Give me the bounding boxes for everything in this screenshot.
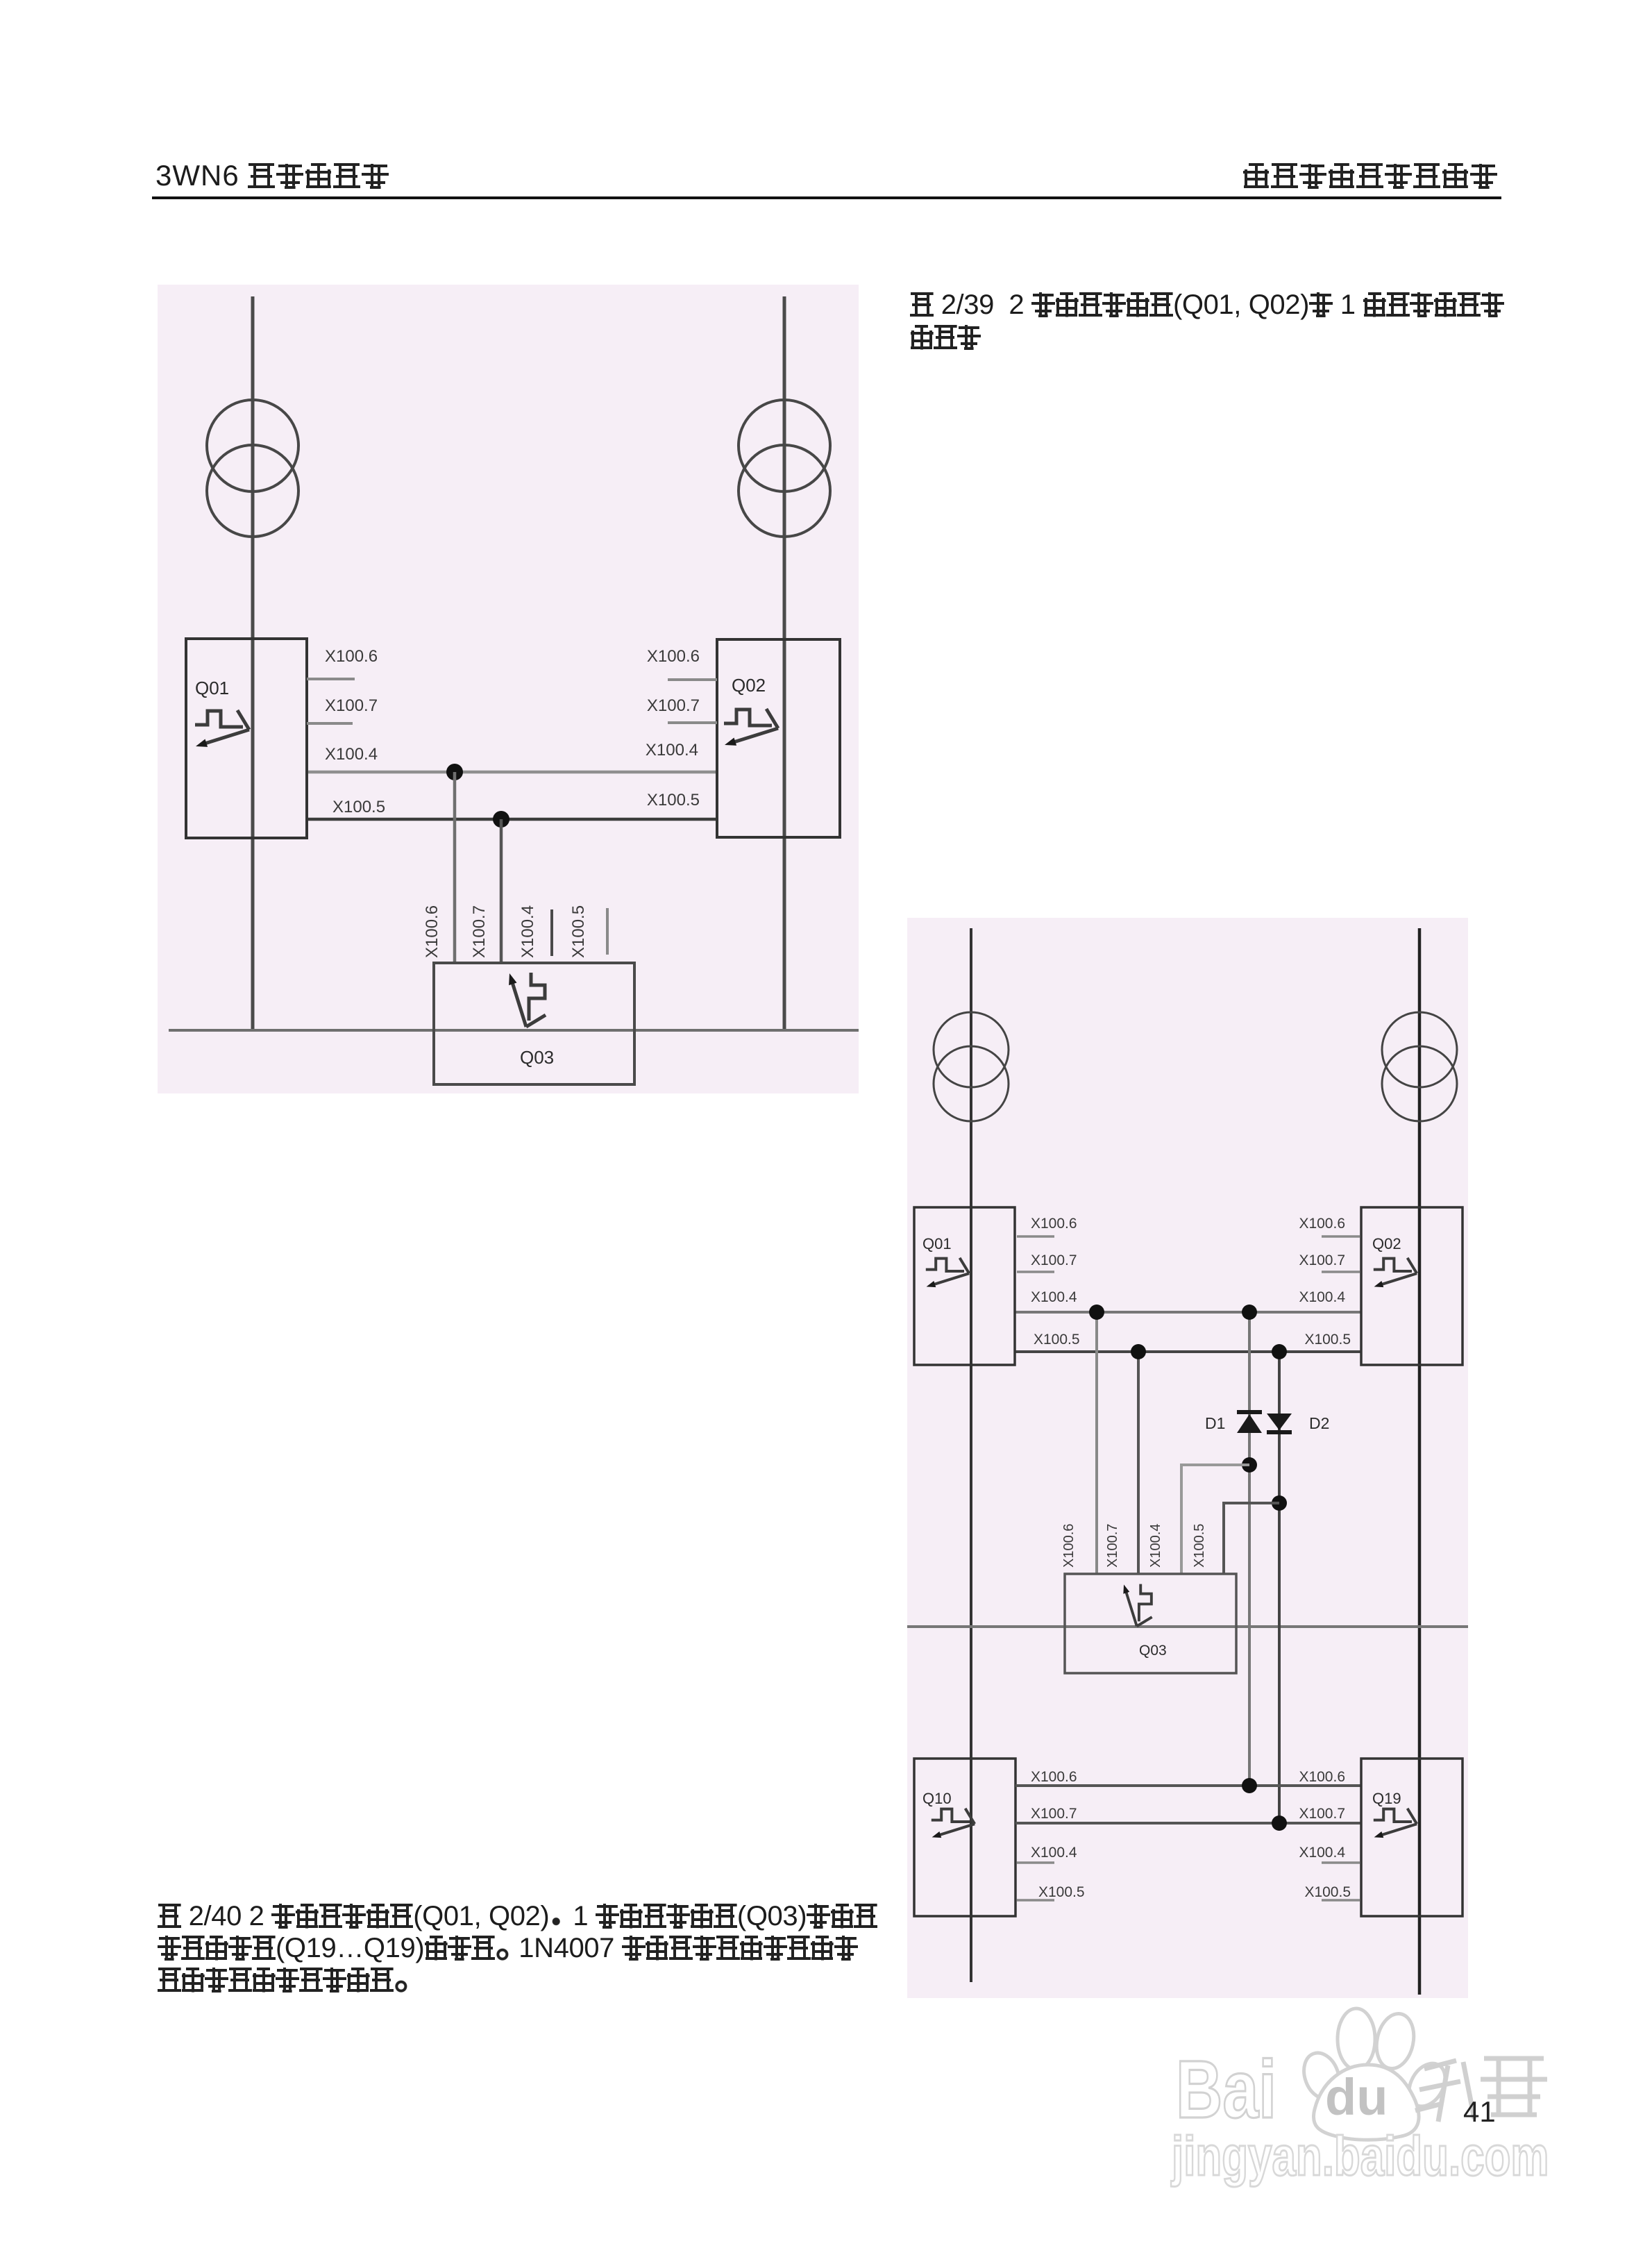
svg-text:X100.5: X100.5 xyxy=(569,905,588,958)
svg-text:X100.6: X100.6 xyxy=(1299,1769,1345,1785)
svg-text:D2: D2 xyxy=(1309,1414,1329,1432)
Q19 pin stub X100.5 xyxy=(1322,1899,1360,1902)
diode D1 branch wire xyxy=(1248,1312,1251,1786)
svg-text:X100.4: X100.4 xyxy=(1148,1524,1163,1568)
junction node X100.7/D2 xyxy=(1272,1815,1287,1831)
junction node X100.6/D1 xyxy=(1242,1778,1257,1793)
figure background xyxy=(158,285,859,1093)
watermark paw icon xyxy=(1298,2008,1453,2140)
svg-text:Bai: Bai xyxy=(1176,2043,1276,2135)
transformer T3 xyxy=(934,1012,1009,1121)
svg-text:X100.4: X100.4 xyxy=(1299,1289,1345,1305)
diode D1 xyxy=(1237,1412,1262,1433)
Q10 pin stub X100.4 xyxy=(1017,1861,1054,1864)
svg-text:Q02: Q02 xyxy=(1372,1235,1401,1252)
Q02 pin stub X100.7 xyxy=(1322,1270,1360,1273)
svg-text:X100.5: X100.5 xyxy=(647,791,700,810)
svg-text:X100.5: X100.5 xyxy=(1038,1884,1085,1900)
header rule xyxy=(152,196,1501,199)
breaker Q02 symbol xyxy=(724,709,778,746)
wire to Q03 pin X100.7 xyxy=(1137,1352,1140,1574)
svg-text:X100.7: X100.7 xyxy=(325,696,378,715)
svg-text:Q19: Q19 xyxy=(1372,1790,1401,1807)
breaker Q10 box xyxy=(914,1759,1015,1916)
diode D2 branch wire xyxy=(1278,1352,1281,1823)
Q01 pin stub X100.6 xyxy=(307,678,355,680)
svg-text:X100.7: X100.7 xyxy=(1031,1806,1077,1822)
junction node X100.5/D2 xyxy=(1272,1344,1287,1359)
Q10 pin stub X100.5 xyxy=(1017,1899,1054,1902)
breaker Q19 box xyxy=(1361,1759,1463,1916)
watermark goes here xyxy=(1166,1999,1569,2194)
svg-text:X100.6: X100.6 xyxy=(1061,1524,1077,1568)
svg-text:X100.7: X100.7 xyxy=(1105,1524,1120,1568)
junction node D1/Q03 pin4 xyxy=(1242,1457,1257,1473)
transformer T4 xyxy=(1382,1012,1457,1121)
wire to Q03 pin X100.7 xyxy=(500,819,503,963)
caption figure 2/40 xyxy=(158,1901,877,1932)
wire net X100.7 (Q10-Q19) xyxy=(1015,1822,1361,1825)
header left: 3WN6 low-voltage circuit breaker xyxy=(155,159,390,192)
breaker Q01 symbol xyxy=(195,710,249,747)
junction node D2/Q03 pin5 xyxy=(1272,1495,1287,1511)
svg-text:X100.4: X100.4 xyxy=(325,745,378,764)
wire net X100.4 xyxy=(307,771,717,774)
page number 41 xyxy=(1463,2095,1496,2129)
breaker Q03 symbol xyxy=(509,973,546,1027)
wire Q03 pin X100.5 (L-shape) xyxy=(1224,1503,1279,1574)
junction node on X100.5 xyxy=(493,811,509,828)
watermark jingyan characters xyxy=(1415,2058,1547,2122)
transformer T2 xyxy=(739,400,830,537)
svg-text:Q03: Q03 xyxy=(1139,1643,1167,1659)
breaker Q10 symbol xyxy=(932,1809,975,1838)
Q01 pin stub X100.6 xyxy=(1017,1235,1054,1238)
breaker Q03 box xyxy=(434,963,634,1084)
svg-text:X100.7: X100.7 xyxy=(647,696,700,715)
svg-text:X100.4: X100.4 xyxy=(1031,1289,1077,1305)
svg-text:X100.4: X100.4 xyxy=(519,905,537,958)
wire net X100.5 xyxy=(1015,1350,1361,1353)
breaker Q01 box xyxy=(914,1207,1015,1365)
wire to Q03 pin X100.6 xyxy=(1095,1312,1098,1574)
svg-text:X100.5: X100.5 xyxy=(1192,1524,1207,1568)
Q19 pin stub X100.4 xyxy=(1322,1861,1360,1864)
transformer T1 xyxy=(207,400,298,537)
svg-text:Q01: Q01 xyxy=(922,1235,952,1252)
junction node X100.4/pin6 xyxy=(1089,1305,1104,1320)
svg-text:X100.4: X100.4 xyxy=(1299,1845,1345,1861)
svg-text:X100.7: X100.7 xyxy=(1299,1806,1345,1822)
Q03 pin stub X100.4 xyxy=(550,909,553,956)
svg-text:Q01: Q01 xyxy=(195,678,229,698)
svg-text:X100.5: X100.5 xyxy=(1034,1332,1080,1348)
breaker Q02 box xyxy=(717,639,840,837)
svg-text:X100.5: X100.5 xyxy=(1304,1884,1351,1900)
breaker Q01 symbol xyxy=(926,1258,969,1287)
svg-text:X100.7: X100.7 xyxy=(1299,1252,1345,1268)
svg-text:Q03: Q03 xyxy=(520,1047,554,1068)
right feeder bus xyxy=(1418,928,1422,1995)
right feeder bus xyxy=(783,296,786,1030)
svg-text:X100.7: X100.7 xyxy=(1031,1252,1077,1268)
wire net X100.4 xyxy=(1015,1311,1361,1314)
svg-text:X100.7: X100.7 xyxy=(470,905,489,958)
breaker Q01 box xyxy=(186,639,307,838)
svg-text:X100.6: X100.6 xyxy=(325,647,378,666)
svg-text:X100.6: X100.6 xyxy=(1031,1769,1077,1785)
junction node X100.5/pin7 xyxy=(1131,1344,1146,1359)
Q02 pin stub X100.6 xyxy=(668,678,717,681)
wire net X100.5 xyxy=(307,818,717,821)
caption figure 2/39 xyxy=(910,290,1504,321)
figure background xyxy=(907,918,1468,1998)
svg-text:du: du xyxy=(1325,2068,1388,2126)
svg-text:X100.5: X100.5 xyxy=(1304,1332,1351,1348)
svg-text:Q02: Q02 xyxy=(732,675,766,696)
left feeder bus xyxy=(251,296,255,1030)
main bus bar xyxy=(169,1029,861,1032)
main bus bar xyxy=(907,1625,1468,1628)
Q02 pin stub X100.6 xyxy=(1322,1235,1360,1238)
svg-text:jingyan.baidu.com: jingyan.baidu.com xyxy=(1170,2125,1549,2187)
breaker Q03 symbol xyxy=(1123,1584,1152,1627)
junction node on X100.4 xyxy=(446,764,463,780)
breaker Q02 symbol xyxy=(1374,1258,1417,1287)
Q01 pin stub X100.7 xyxy=(307,722,353,725)
svg-text:X100.6: X100.6 xyxy=(647,647,700,666)
header right: breaker structure and operation xyxy=(1242,159,1499,192)
wire net X100.6 (Q10-Q19) xyxy=(1015,1784,1361,1787)
wire Q03 pin X100.4 (L-shape) xyxy=(1181,1465,1249,1574)
svg-text:X100.6: X100.6 xyxy=(423,905,441,958)
breaker Q19 symbol xyxy=(1374,1809,1417,1838)
svg-text:Q10: Q10 xyxy=(922,1790,952,1807)
svg-text:D1: D1 xyxy=(1205,1414,1225,1432)
Q03 pin stub X100.5 xyxy=(606,908,609,955)
svg-text:X100.4: X100.4 xyxy=(646,741,698,760)
breaker Q02 box xyxy=(1361,1207,1463,1365)
Q02 pin stub X100.7 xyxy=(668,721,717,724)
svg-text:X100.5: X100.5 xyxy=(332,798,385,816)
svg-text:X100.6: X100.6 xyxy=(1299,1216,1345,1232)
left feeder bus xyxy=(970,928,972,1982)
svg-text:X100.6: X100.6 xyxy=(1031,1216,1077,1232)
wire to Q03 pin X100.6 xyxy=(453,772,457,963)
FIGURE 2/39 diagram SVG goes here xyxy=(158,285,859,1093)
diode D2 xyxy=(1267,1414,1292,1432)
junction node X100.4/D1 xyxy=(1242,1305,1257,1320)
FIGURE 2/40 diagram SVG goes here xyxy=(907,918,1468,1998)
svg-text:X100.4: X100.4 xyxy=(1031,1845,1077,1861)
breaker Q03 box xyxy=(1065,1574,1236,1673)
Q01 pin stub X100.7 xyxy=(1017,1270,1054,1273)
